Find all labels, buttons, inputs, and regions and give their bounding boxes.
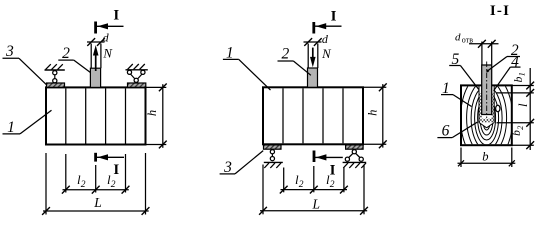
svg-text:I: I [331,8,337,24]
triangle of pinned support [130,74,135,80]
svg-text:h: h [365,110,379,116]
svg-text:1: 1 [517,72,527,76]
force N arrow up (fig1) [95,52,97,71]
beam 1 body [46,87,146,144]
svg-text:l: l [516,103,530,107]
extension lines below beam (fig1) [45,153,47,215]
dimension line L (fig1) [43,210,149,212]
svg-text:5: 5 [452,51,460,68]
svg-text:1: 1 [442,80,450,97]
leader label 3 (fig1) [3,57,20,59]
rod extension lines for d (fig2) [307,44,309,69]
support 3 plate (fig1 left) [47,83,65,87]
leader label 1 (section) [441,94,453,96]
lamination line [65,88,67,143]
leader label 3 (fig2) [220,173,235,175]
svg-text:d: d [455,32,461,44]
rod extension lines for d [90,44,92,69]
adhesive under rod [482,119,492,123]
leader label 4 [510,66,520,68]
lamination line [125,88,127,143]
section mark I bottom (fig1) [94,153,97,162]
force N arrow down (fig2) [312,48,314,60]
svg-text:I: I [330,163,336,179]
svg-text:2: 2 [111,180,116,190]
leader label 1 (fig2) [223,58,239,60]
svg-text:2: 2 [299,180,304,190]
pendulum support hinge circles and link [53,71,57,75]
leader label 2 (fig2) [278,60,294,62]
leader label 5 [449,65,460,67]
steel rod 2 (section) [482,65,492,115]
extension lines below beam (fig2) [262,165,264,215]
dimension line l2-l2 (fig1) [63,189,129,191]
leader label 1 (fig1) [3,133,21,135]
svg-text:4: 4 [511,54,519,71]
annual growth rings [454,63,520,173]
dimension line d_otv [469,43,499,45]
hole (drilled) white interior [479,86,494,122]
lamination line [85,88,87,143]
pendulum support (fig1 left): ceiling with hatch [45,69,65,71]
adhesive layer 4 (dotted) left strip [479,93,482,123]
support plate (fig2 right) [346,145,364,149]
ground line with hatch (fig2 right) [343,161,367,163]
dimension line L (fig2) [260,210,367,212]
svg-text:3: 3 [5,43,14,60]
svg-text:N: N [102,47,113,61]
svg-text:I: I [113,8,119,24]
beam 1 body (fig2) [263,87,363,144]
pinned triangle support (fig2 right) [352,150,356,154]
svg-text:2: 2 [330,180,335,190]
svg-text:1: 1 [7,119,15,136]
lamination line [302,88,304,143]
section mark I bottom (fig2) [313,151,316,163]
svg-text:3: 3 [223,159,232,176]
svg-text:N: N [321,47,332,61]
dimension d_otv extension lines [481,42,483,65]
svg-text:отв: отв [462,35,473,44]
adhesive layer right strip [492,93,495,123]
svg-text:1: 1 [226,44,234,61]
leader label 2 (section) [507,56,520,58]
lamination line [322,88,324,143]
svg-text:L: L [312,197,321,212]
pendulum support (fig2 left): hinge circles and link [270,150,274,154]
knot ring right of hole [496,105,500,111]
svg-text:b: b [482,149,488,163]
glued-in rod 2 (fig1) [90,68,100,87]
section mark I top (fig2) [312,22,315,34]
hole walls [478,85,480,122]
conical hole bottom [479,123,494,128]
dimension line l2-l2 (fig2) [281,189,348,191]
dimension line b [458,162,516,164]
section mark I top (fig1) [94,22,97,34]
svg-text:2: 2 [62,45,70,62]
dimension line d (fig1) [87,41,105,43]
leader label 2 (fig1) [58,59,74,61]
right vertical dimension line b1 / l / b2 [529,68,531,150]
svg-text:6: 6 [442,122,450,139]
rod axis dash-dot centerline [486,62,488,119]
dimension line d (fig2) [304,41,322,43]
wood block cross-section 1 [461,85,512,145]
leader label 6 [437,137,452,139]
support plate (fig1 right) [128,83,146,87]
lamination line [105,88,107,143]
svg-text:I: I [113,162,119,178]
dimension b extension lines [460,148,462,168]
ground line with hatch (fig2 left) [264,161,283,163]
right dimension stack extension lines [512,85,534,87]
svg-text:2: 2 [81,180,86,190]
svg-text:I-I: I-I [490,3,510,19]
lamination line [342,88,344,143]
svg-text:d: d [103,31,110,45]
glued-in rod 2 (fig2) [308,68,318,87]
svg-text:L: L [93,195,102,210]
dimension line h (fig2) [364,86,386,88]
svg-text:h: h [145,110,159,116]
dimension line h (fig1) [147,86,167,88]
pinned triangle support (fig1 right): ceiling with hatch [126,69,148,71]
svg-text:2: 2 [282,46,290,63]
support 3 plate (fig2 left) [264,145,282,149]
svg-text:d: d [322,32,329,46]
lamination line [282,88,284,143]
